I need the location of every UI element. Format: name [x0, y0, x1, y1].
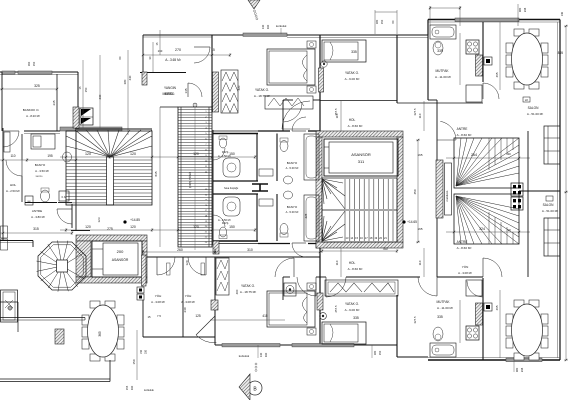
balcony lower-left rail: [0, 317, 85, 319]
svg-text:A...3.80 M²: A...3.80 M²: [31, 215, 45, 219]
svg-text:LK: LK: [525, 98, 529, 102]
svg-text:380: 380: [518, 7, 522, 12]
svg-text:M: M: [28, 200, 31, 204]
svg-text:110: 110: [335, 260, 339, 265]
svg-text:A...3.50 M²: A...3.50 M²: [35, 169, 49, 173]
bathrooms mid-left fixtures: DUS top: [219, 138, 226, 148]
kitchen top counter line: [459, 33, 461, 85]
svg-text:760: 760: [382, 247, 388, 251]
svg-text:MERD.: MERD.: [165, 92, 175, 96]
octagon center post: [57, 260, 68, 272]
door antre right upper: [437, 139, 456, 141]
svg-text:h.b.: h.b.: [62, 195, 67, 199]
svg-text:165: 165: [417, 227, 422, 231]
svg-text:140: 140: [261, 24, 265, 29]
level marker +14.65: [402, 220, 405, 223]
svg-text:YATAK O.: YATAK O.: [255, 88, 269, 92]
wall top-right outer y20: [428, 19, 560, 21]
fire stair outline: [66, 131, 152, 205]
svg-text:335: 335: [437, 49, 443, 53]
door corridor lower rooms: [156, 257, 158, 275]
left wing: wall x78: [77, 72, 79, 107]
svg-text:330: 330: [130, 385, 134, 390]
wall x320 apartment divider: [319, 35, 321, 131]
svg-text:270: 270: [175, 48, 181, 52]
svg-text:120: 120: [185, 260, 189, 265]
left wing: top wall y73 with windows: [0, 71, 78, 73]
dim bottom center long line: [55, 392, 255, 394]
svg-text:SALON: SALON: [528, 106, 540, 110]
kitchen top: wc: [433, 41, 443, 55]
level marker left +14.85: [123, 220, 126, 223]
dim line top y55 row: [143, 54, 230, 56]
wardrobe yangin room: [221, 70, 238, 113]
svg-text:311: 311: [358, 159, 365, 164]
door kitchen-salon bottom: [482, 281, 484, 297]
svg-text:A...18.75 M²: A...18.75 M²: [254, 94, 270, 98]
door left-wing small: [3, 130, 19, 132]
svg-text:380: 380: [515, 367, 519, 372]
svg-text:257.5: 257.5: [334, 108, 338, 115]
dim top mid verticals: [159, 30, 161, 55]
svg-text:150: 150: [229, 225, 235, 229]
wall x320 bath right wall: [319, 131, 321, 181]
door HOL lower right: [436, 277, 438, 296]
svg-text:310: 310: [247, 248, 253, 252]
svg-text:327.5: 327.5: [413, 316, 417, 323]
svg-text:230: 230: [98, 94, 102, 99]
dim top right 390 236: [429, 6, 431, 26]
left wing: window band y129: [60, 127, 122, 131]
wardrobe lower mid: [325, 280, 398, 296]
right winder dims: [446, 157, 530, 159]
right winder upper: [454, 138, 519, 188]
dim 465 vertical right: [499, 290, 501, 358]
wall step x428 top: [427, 20, 429, 36]
svg-text:A...8.60 M²: A...8.60 M²: [348, 267, 363, 271]
svg-text:korkuluk: korkuluk: [144, 388, 154, 392]
wall bottom-right outer y360: [428, 359, 560, 361]
svg-text:123: 123: [97, 217, 101, 222]
svg-text:A...2.50 M²: A...2.50 M²: [6, 189, 20, 193]
svg-text:440: 440: [128, 75, 132, 80]
bed upper-middle YATAK 18.75: [267, 49, 315, 85]
svg-text:110: 110: [213, 248, 217, 253]
svg-text:+14.85: +14.85: [130, 218, 140, 222]
kitchen bottom: fridge: [466, 280, 482, 296]
left bath fixtures: [41, 190, 50, 202]
svg-text:BANYO: BANYO: [287, 161, 298, 165]
wall right outer x560: [559, 20, 561, 361]
door lower-left room big: [196, 316, 215, 335]
svg-text:ANTRE: ANTRE: [457, 240, 468, 244]
wall y131 left wing bottom / cabinet: [24, 130, 60, 132]
svg-text:A...18.75 M²: A...18.75 M²: [240, 290, 256, 294]
svg-text:15: 15: [211, 48, 215, 52]
dim 315 left lower: [0, 232, 72, 234]
svg-text:160: 160: [27, 61, 31, 66]
svg-text:A...3.65 M²: A...3.65 M²: [165, 58, 181, 62]
wall y72 yangin top: [140, 72, 186, 74]
kitchen top: fridge: [466, 85, 482, 102]
wall x212 vertical upper: [211, 35, 213, 112]
wall kitchen-right x483 top: [482, 22, 484, 82]
svg-text:180: 180: [375, 19, 379, 24]
central straight stair outline: [178, 107, 212, 247]
svg-text:125: 125: [195, 314, 201, 318]
svg-text:120: 120: [130, 152, 136, 156]
svg-text:ANTRE: ANTRE: [457, 127, 468, 131]
svg-text:A...3.08 M²: A...3.08 M²: [458, 271, 472, 275]
svg-text:236: 236: [561, 11, 564, 16]
lower rooms walls: [182, 257, 184, 337]
svg-text:BANYO: BANYO: [35, 163, 46, 167]
wall lower mid y345: [215, 344, 397, 346]
svg-text:10: 10: [507, 228, 511, 232]
shaft duct black triangles: [80, 108, 93, 125]
svg-text:DUŞ: DUŞ: [222, 150, 228, 154]
svg-text:330: 330: [266, 24, 270, 29]
svg-text:MUTFAK: MUTFAK: [436, 69, 450, 73]
svg-text:120: 120: [130, 225, 136, 229]
svg-text:155: 155: [125, 385, 129, 390]
core stair fan diagonals: [322, 179, 343, 183]
svg-text:ASANSÖR: ASANSÖR: [112, 258, 129, 262]
door antre right lower: [482, 258, 484, 277]
door kitchen-salon top: [482, 83, 484, 99]
svg-text:450: 450: [413, 189, 417, 194]
bed lower-right mirror: [322, 322, 366, 344]
svg-text:A...8.60 M²: A...8.60 M²: [348, 124, 363, 128]
svg-text:327.5: 327.5: [413, 108, 417, 115]
svg-text:YATAK O.: YATAK O.: [345, 302, 359, 306]
washer box lower HOL: [284, 283, 296, 296]
svg-text:120: 120: [193, 225, 199, 229]
wall salon divider y191 right: [519, 190, 560, 192]
wardrobe upper mid (bedroom 18.75): [265, 96, 313, 109]
dim bottom-left 150: [136, 330, 138, 380]
door upper mid bedroom y129: [282, 128, 310, 130]
upper-left of salon walls x428: [427, 35, 429, 100]
dim row y230 mid: [60, 229, 255, 231]
dim row y252 mid: [143, 251, 320, 253]
bed lower-middle YATAK 18.75 mirror: [267, 291, 315, 327]
svg-text:150: 150: [84, 87, 88, 92]
banyo shelves: [259, 169, 273, 176]
svg-text:korkuluk: korkuluk: [239, 354, 250, 358]
svg-text:HOL: HOL: [349, 118, 356, 122]
wall kitchen-left x397 top: [396, 35, 398, 103]
wall x76 vertical: [75, 131, 77, 230]
svg-text:330: 330: [264, 352, 268, 357]
kitchen top: hatched column: [476, 55, 483, 76]
svg-text:A...3.08 M²: A...3.08 M²: [151, 300, 165, 304]
wall x437 lower: [436, 218, 438, 277]
section marker B bottom: [248, 381, 262, 395]
wall salon left x483 lower: [482, 278, 484, 360]
svg-text:BANKOK O.: BANKOK O.: [23, 108, 40, 112]
kitchen bottom mirror: bathtub: [430, 343, 456, 357]
svg-text:150: 150: [378, 350, 382, 355]
corridor HOL bottom wall y277 lower: [283, 276, 290, 278]
wall y115 antre right upper: [436, 100, 438, 115]
svg-text:264: 264: [471, 153, 477, 157]
svg-text:150: 150: [32, 61, 36, 66]
wall x528 stair-salon: [527, 131, 529, 277]
wall x22 bathroom left: [21, 134, 23, 160]
svg-text:HOL: HOL: [10, 183, 17, 187]
corridor HOL top wall y100: [283, 99, 293, 101]
dim 325 room line: [0, 88, 57, 90]
washbasin circle upper divider: [321, 61, 327, 67]
svg-text:315: 315: [33, 227, 39, 231]
wall bathroom strip x213 lower: [212, 130, 214, 245]
svg-text:A...11.00 M²: A...11.00 M²: [435, 75, 451, 79]
corridor wall x283: [282, 100, 284, 131]
svg-text:hava boşluğu: hava boşluğu: [224, 187, 239, 190]
svg-text:465: 465: [495, 72, 499, 77]
kitchen bottom: stove: [466, 326, 479, 340]
elevator core outer hatched walls: [316, 131, 403, 137]
svg-text:YÖH: YÖH: [185, 294, 192, 298]
svg-text:ASANSÖR: ASANSÖR: [351, 152, 371, 157]
door bathroom left x22: [21, 160, 23, 176]
door yangin: [187, 83, 189, 97]
svg-text:324: 324: [479, 227, 485, 231]
kitchen bottom: small box: [484, 303, 492, 311]
core U-stair below elevator: [322, 178, 397, 242]
door banyo top right: [292, 130, 306, 132]
fire stair center rail: [107, 157, 114, 205]
svg-text:150: 150: [132, 359, 136, 364]
dim right edge 805: [565, 26, 567, 360]
label salon top: [523, 97, 530, 102]
door dus bottom: [212, 215, 214, 227]
svg-text:YÖH: YÖH: [155, 294, 162, 298]
svg-text:120: 120: [85, 152, 91, 156]
wall top mid y34 with balcony rail: [143, 34, 243, 36]
svg-text:BANYO: BANYO: [287, 205, 298, 209]
left wing: wall x57: [56, 74, 58, 131]
dining table bottom-left: [90, 301, 100, 308]
svg-text:150: 150: [140, 349, 143, 354]
svg-text:A...51.00 M²: A...51.00 M²: [527, 112, 543, 116]
svg-text:A...9.00 M²: A...9.00 M²: [345, 77, 360, 81]
svg-text:A...51.00 M²: A...51.00 M²: [542, 209, 558, 213]
octagon winder stair: [38, 242, 86, 290]
svg-text:110: 110: [10, 154, 15, 158]
dim 110 hol labels: [340, 101, 342, 131]
corridor bottom-left walls y257: [143, 256, 320, 258]
dining table top-right: [514, 29, 524, 36]
svg-text:240: 240: [183, 307, 187, 312]
dim verticals left wing right: [82, 60, 84, 128]
svg-text:90/220: 90/220: [36, 176, 43, 178]
balcony corner bottom-left marks: [0, 301, 18, 303]
sofa right upper: [544, 126, 560, 164]
wall y107 yangin bottom: [160, 106, 178, 108]
walls banyo rooms: [276, 134, 278, 182]
svg-text:120: 120: [193, 152, 199, 156]
door HOL to bedroom 18.75 lower: [293, 258, 295, 277]
svg-text:140: 140: [259, 352, 263, 357]
dim row y157 mid: [160, 156, 255, 158]
svg-text:400: 400: [235, 289, 239, 294]
door top room x194: [194, 46, 210, 48]
core-right corridor wall x437: [436, 100, 438, 160]
wall y230 antre-elevator link: [71, 230, 90, 232]
svg-text:835: 835: [154, 171, 158, 176]
svg-text:335: 335: [351, 50, 357, 54]
bed upper-right YATAK 9.00: [322, 40, 366, 62]
door left antre: [57, 208, 72, 210]
svg-text:A...11.00 M²: A...11.00 M²: [437, 306, 453, 310]
svg-text:420: 420: [237, 85, 241, 90]
wardrobe lower-left x216: [216, 258, 229, 295]
svg-text:A...8.60 M²: A...8.60 M²: [457, 246, 472, 250]
electric boxes below elevator: [137, 287, 144, 293]
svg-text:180: 180: [373, 350, 377, 355]
wall x72 antre right: [71, 204, 73, 228]
wall left rooms y203 banyo bottom: [25, 202, 57, 204]
svg-text:YATAK O.: YATAK O.: [345, 71, 359, 75]
hatched column lower-left balcony: [55, 329, 64, 344]
svg-text:257.5: 257.5: [334, 305, 338, 312]
wall y277 antre right: [437, 276, 483, 278]
svg-text:ANTRE: ANTRE: [32, 209, 42, 213]
sofa right lower: [544, 218, 560, 256]
DUS bottom mirror: [219, 227, 226, 237]
kitchen top: bathtub: [430, 25, 456, 39]
dim 450/165 core right: [417, 140, 419, 242]
svg-text:YANGIN: YANGIN: [164, 86, 177, 90]
svg-text:YATAK O.: YATAK O.: [241, 284, 255, 288]
fire stair treads: [66, 159, 107, 161]
wall y241 left balcony top: [0, 240, 33, 242]
svg-text:110: 110: [418, 260, 422, 265]
svg-text:335: 335: [353, 316, 359, 320]
kitchen bottom: hatched column: [476, 303, 483, 325]
dim 110/195 left: [0, 159, 76, 161]
left wing cabinet under window: [31, 134, 55, 149]
svg-text:165: 165: [417, 153, 422, 157]
svg-text:MUTFAK: MUTFAK: [437, 300, 451, 304]
svg-text:335: 335: [437, 315, 443, 319]
dining table bottom-right: [514, 300, 524, 307]
wall y337 lower-left rooms bottom: [143, 336, 215, 338]
svg-text:236: 236: [520, 367, 524, 372]
svg-text:YÖN: YÖN: [462, 265, 469, 269]
electric panels: [511, 183, 523, 196]
svg-text:ÇIKIŞ YÖNÜ: ÇIKIŞ YÖNÜ: [188, 172, 192, 188]
walls bathroom cluster mid: DUS rooms: [213, 133, 258, 135]
wall left outer x2 upper: [1, 72, 3, 131]
svg-text:260: 260: [177, 248, 183, 252]
svg-text:HOL: HOL: [349, 261, 356, 265]
svg-text:200: 200: [117, 249, 124, 254]
svg-text:380: 380: [123, 79, 127, 84]
svg-text:195: 195: [47, 154, 53, 158]
svg-text:235: 235: [52, 100, 56, 105]
section marker B top: [248, 0, 260, 9]
banyo right fixtures: [280, 141, 288, 152]
svg-text:805: 805: [558, 51, 564, 55]
door HOL to bedroom2 lower: [325, 277, 327, 297]
svg-text:A...9.00 M²: A...9.00 M²: [345, 308, 360, 312]
svg-text:+14.65: +14.65: [407, 220, 417, 224]
door dus top: [212, 148, 214, 160]
svg-text:30: 30: [507, 152, 511, 156]
svg-text:325: 325: [34, 84, 40, 88]
door banyo bottom right: [292, 242, 306, 244]
fire stair top wall: [75, 128, 152, 130]
svg-text:SALON: SALON: [543, 203, 555, 207]
svg-text:15: 15: [147, 315, 151, 319]
svg-text:365: 365: [98, 331, 102, 337]
left elevator inner: [92, 241, 142, 277]
svg-text:275: 275: [107, 227, 113, 231]
fire stair fan: [75, 130, 110, 157]
fire stair hatched column: [73, 107, 79, 128]
left elevator hatched box: [76, 235, 147, 241]
small boxes left edge: [1, 226, 8, 238]
svg-text:225: 225: [304, 213, 308, 218]
svg-text:merdiven: merdiven: [445, 190, 449, 201]
wall yangin room x143 / top room: [142, 35, 144, 72]
svg-text:A...5.00 M²: A...5.00 M²: [286, 166, 299, 170]
svg-text:145: 145: [184, 88, 188, 93]
svg-text:415: 415: [262, 314, 268, 318]
right stair hatched wall: [436, 160, 443, 218]
svg-text:7.5: 7.5: [157, 314, 161, 318]
fire stair dim 120 120: [60, 156, 160, 158]
center air shaft H element: [252, 184, 268, 191]
kitchen bottom: wc: [433, 327, 443, 341]
wall kitchen bottom y103: [397, 102, 483, 104]
elevator U1 inner box: [324, 139, 398, 176]
svg-text:A...3.08 M²: A...3.08 M²: [181, 300, 195, 304]
svg-text:110: 110: [418, 113, 422, 118]
svg-text:korkuluk: korkuluk: [276, 24, 287, 28]
door hol upper left: [282, 103, 284, 122]
svg-text:150: 150: [229, 152, 235, 156]
svg-text:236: 236: [523, 7, 527, 12]
svg-text:465: 465: [495, 305, 499, 310]
wall kitchen bottom mirror x397: [396, 295, 398, 357]
svg-text:A...8.20 M²: A...8.20 M²: [26, 114, 40, 118]
svg-text:330: 330: [145, 349, 148, 354]
left far rooms fixtures: [4, 132, 10, 152]
planter lower-left: [1, 290, 18, 322]
svg-text:A...2.50 M²: A...2.50 M²: [218, 218, 231, 222]
right winder lower: [454, 194, 519, 244]
svg-text:150: 150: [380, 19, 384, 24]
wall left outer x3 lower: [2, 128, 4, 240]
dim 760 below core: [322, 250, 397, 252]
kitchen top: stove: [466, 40, 479, 54]
wall x212-218 hatched column upper: [213, 72, 219, 112]
svg-text:A...8.60 M²: A...8.60 M²: [457, 133, 472, 137]
central stair treads: [178, 109, 212, 111]
kitchen top: small box: [484, 57, 492, 65]
svg-text:A...5.00 M²: A...5.00 M²: [286, 210, 299, 214]
svg-text:120: 120: [85, 225, 91, 229]
door small lower mid: [315, 277, 317, 296]
central stair center line + circle: [194, 103, 196, 250]
octagon radial treads: [62, 266, 85, 279]
banyo bathtubs right: [304, 134, 319, 180]
hatched columns misc: [211, 300, 218, 310]
